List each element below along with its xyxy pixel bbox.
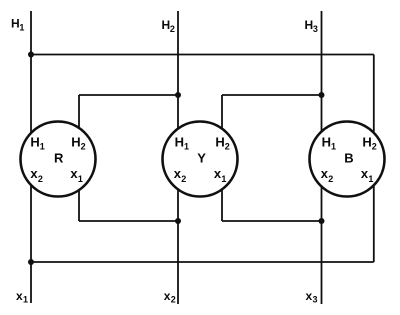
svg-text:3: 3 — [313, 24, 318, 34]
svg-text:H: H — [215, 135, 224, 150]
svg-text:1: 1 — [184, 142, 189, 152]
svg-text:2: 2 — [372, 142, 377, 152]
svg-text:H: H — [362, 135, 371, 150]
svg-text:1: 1 — [19, 23, 24, 33]
svg-text:2: 2 — [328, 174, 333, 184]
svg-text:1: 1 — [78, 174, 83, 184]
svg-text:R: R — [54, 151, 64, 166]
svg-text:H: H — [162, 18, 171, 32]
svg-text:H: H — [305, 18, 314, 32]
svg-text:x: x — [306, 289, 313, 303]
svg-text:3: 3 — [313, 295, 318, 305]
svg-text:2: 2 — [225, 142, 230, 152]
svg-text:Y: Y — [197, 151, 206, 166]
svg-text:1: 1 — [221, 174, 226, 184]
svg-text:2: 2 — [38, 174, 43, 184]
svg-text:1: 1 — [368, 174, 373, 184]
svg-text:H: H — [30, 135, 39, 150]
svg-text:H: H — [175, 135, 184, 150]
svg-text:1: 1 — [331, 142, 336, 152]
svg-text:H: H — [71, 135, 80, 150]
svg-text:2: 2 — [171, 295, 176, 305]
svg-text:2: 2 — [181, 174, 186, 184]
svg-text:1: 1 — [23, 295, 28, 305]
svg-text:x: x — [16, 289, 23, 303]
svg-text:H: H — [11, 17, 20, 31]
svg-text:H: H — [322, 135, 331, 150]
svg-text:1: 1 — [40, 142, 45, 152]
svg-text:B: B — [344, 151, 353, 166]
svg-text:2: 2 — [81, 142, 86, 152]
svg-text:x: x — [164, 289, 171, 303]
svg-text:2: 2 — [170, 24, 175, 34]
